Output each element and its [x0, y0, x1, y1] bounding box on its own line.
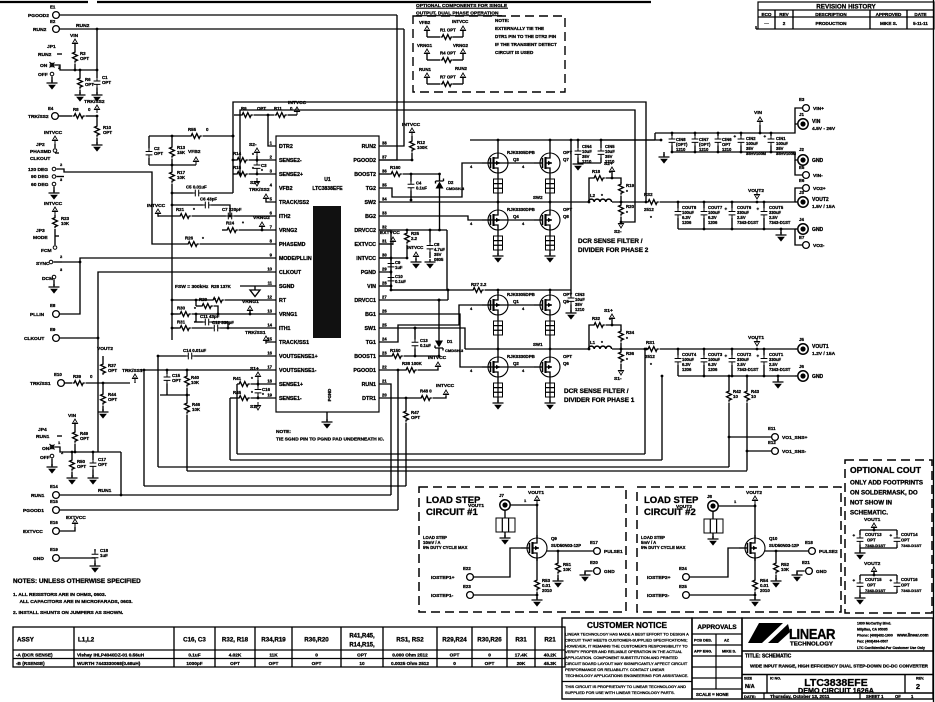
Linear Technology logo [748, 623, 836, 648]
svg-text:WIDE INPUT RANGE, HIGH EFFICIE: WIDE INPUT RANGE, HIGH EFFICIENCY DUAL S… [750, 664, 929, 669]
wire sense node [160, 394, 190, 397]
svg-text:R34,R19: R34,R19 [261, 637, 286, 644]
svg-text:10K: 10K [191, 380, 200, 385]
svg-text:JP2: JP2 [36, 142, 45, 148]
svg-text:MIKE S.: MIKE S. [722, 650, 736, 654]
svg-text:OF: OF [895, 694, 901, 699]
net VOUT1 opt [864, 517, 881, 531]
svg-text:R21: R21 [176, 207, 185, 212]
svg-text:J6: J6 [799, 364, 804, 369]
net VOUT2 in LS2 [746, 490, 762, 538]
capacitor C14 [157, 348, 276, 359]
svg-text:1uF: 1uF [100, 553, 108, 558]
svg-text:7343-D1ST: 7343-D1ST [901, 588, 922, 593]
svg-text:R8: R8 [73, 107, 79, 112]
svg-text:EXTVCC: EXTVCC [23, 529, 43, 535]
resistor R1 [419, 19, 469, 39]
svg-text:Thursday, October 13, 2011: Thursday, October 13, 2011 [770, 694, 830, 699]
wire Q8 drain [549, 202, 551, 207]
svg-text:VOUT1: VOUT1 [812, 344, 829, 350]
svg-text:GND: GND [816, 569, 827, 575]
svg-text:VO2-: VO2- [813, 243, 825, 249]
svg-text:E7: E7 [799, 235, 805, 240]
resistor R10 [92, 116, 113, 152]
svg-text:VO1_SNS-: VO1_SNS- [782, 449, 807, 455]
svg-text:IOSTEP2-: IOSTEP2- [647, 593, 670, 599]
svg-text:PHASEMD: PHASEMD [279, 242, 306, 248]
svg-text:36: 36 [382, 169, 387, 174]
capacitor CIN5 [578, 140, 615, 164]
net VIN label [754, 110, 763, 134]
svg-text:VIN-: VIN- [813, 173, 823, 179]
svg-text:1uF: 1uF [395, 265, 403, 270]
svg-text:Milpitas, CA 95035: Milpitas, CA 95035 [857, 628, 888, 632]
svg-text:+: + [853, 578, 856, 583]
diode D2 [436, 173, 465, 232]
svg-text:*: * [242, 221, 244, 227]
svg-text:2512: 2512 [644, 207, 654, 212]
svg-text:22: 22 [382, 365, 387, 370]
resistor R160 [379, 165, 440, 176]
svg-text:N/A: N/A [745, 684, 755, 690]
svg-text:www.linear.com: www.linear.com [896, 633, 929, 638]
svg-text:R160: R160 [390, 165, 401, 170]
net S1+ at DCR [604, 308, 615, 326]
svg-text:HOWEVER, IT REMAINS THE CUSTOM: HOWEVER, IT REMAINS THE CUSTOMER'S RESPO… [565, 643, 688, 648]
svg-text:TG1: TG1 [366, 340, 376, 346]
resistor R37 [101, 356, 118, 375]
svg-text:PRODUCTION: PRODUCTION [816, 21, 848, 26]
svg-text:GND: GND [812, 227, 824, 233]
svg-text:RUN2: RUN2 [33, 27, 47, 33]
svg-text:E1: E1 [50, 5, 56, 10]
svg-text:APP ENG.: APP ENG. [694, 650, 712, 654]
svg-text:VIN: VIN [70, 33, 79, 39]
net VRNG2 [253, 215, 270, 231]
svg-text:R29,R24: R29,R24 [442, 637, 467, 644]
svg-text:VRNG1: VRNG1 [242, 299, 259, 305]
svg-text:RUN1: RUN1 [98, 488, 112, 494]
svg-text:10K: 10K [192, 407, 201, 412]
gnd COUT bank1 [678, 375, 795, 389]
text DCR phase2 [578, 238, 649, 254]
svg-text:SW1: SW1 [365, 326, 377, 332]
gate box Q4 [493, 233, 504, 263]
svg-text:2512: 2512 [645, 354, 655, 359]
svg-text:+: + [757, 207, 760, 212]
svg-text:—: — [764, 21, 769, 26]
load step 2 box [637, 487, 841, 612]
svg-text:OPT: OPT [102, 80, 111, 85]
svg-text:IOSTEP1+: IOSTEP1+ [431, 575, 455, 581]
svg-text:DIVIDER FOR PHASE 1: DIVIDER FOR PHASE 1 [564, 397, 635, 404]
svg-text:E5: E5 [799, 165, 805, 170]
capacitor COUT1 [757, 348, 791, 378]
net S1- at C16 [250, 402, 261, 410]
VIN rail bank [601, 132, 790, 140]
net FSW RT [171, 284, 276, 302]
svg-text:7343-D1ST: 7343-D1ST [901, 543, 922, 548]
svg-text:Q9: Q9 [551, 536, 557, 541]
svg-text:18: 18 [267, 379, 272, 384]
svg-text:R1 OPT: R1 OPT [440, 28, 456, 33]
resistor R25 [379, 230, 420, 259]
resistor R34 [619, 330, 635, 351]
svg-text:0: 0 [453, 661, 456, 666]
wire BG2 [379, 216, 482, 220]
svg-text:PGND: PGND [327, 389, 332, 402]
svg-text:R41,R45,: R41,R45, [349, 634, 375, 640]
svg-text:0.1uF: 0.1uF [395, 279, 406, 284]
svg-text:GND: GND [812, 158, 824, 164]
capacitor COUT5 [757, 201, 791, 231]
svg-text:EXTVCC: EXTVCC [355, 242, 377, 248]
jack J8 [676, 494, 755, 511]
optional components dashed box [413, 3, 565, 92]
svg-text:*: * [202, 236, 204, 242]
svg-text:24: 24 [382, 337, 387, 342]
svg-text:11: 11 [268, 281, 273, 286]
svg-text:R32: R32 [592, 316, 601, 321]
svg-text:7343-D1ST: 7343-D1ST [865, 588, 886, 593]
svg-text:7343-D1ST: 7343-D1ST [865, 543, 886, 548]
svg-text:DIVIDER FOR PHASE 2: DIVIDER FOR PHASE 2 [578, 247, 649, 254]
svg-text:SHEET 1: SHEET 1 [866, 694, 884, 699]
svg-text:+: + [890, 578, 893, 583]
svg-text:R31: R31 [177, 320, 186, 325]
testpoint E9 [24, 327, 98, 342]
svg-text:NOTE:: NOTE: [495, 18, 510, 23]
wire VOUTSENSE1+ drop [157, 356, 159, 467]
capacitor COUT13 [853, 529, 898, 548]
svg-text:VIN+: VIN+ [813, 106, 824, 112]
svg-text:2: 2 [783, 21, 786, 26]
VIN rail phase1 [497, 289, 571, 293]
testpoint E18 [765, 540, 838, 555]
svg-text:PERFORMANCE OR RELIABILITY. CO: PERFORMANCE OR RELIABILITY. CONTACT LINE… [565, 667, 664, 672]
jack J1 [795, 112, 836, 132]
svg-text:ON: ON [42, 446, 50, 452]
wire SW1 pin [379, 327, 465, 349]
svg-text:AZ: AZ [724, 639, 730, 643]
capacitor COUT15 [853, 574, 898, 593]
svg-text:CLKOUT: CLKOUT [30, 156, 50, 162]
svg-text:E10: E10 [54, 372, 62, 377]
svg-text:VIN: VIN [68, 413, 77, 419]
resistor R38 [379, 355, 447, 372]
jack J3 [795, 190, 836, 210]
testpoint E8 [30, 262, 80, 318]
svg-text:R7 OPT: R7 OPT [440, 75, 456, 80]
resistor R13 [170, 136, 186, 166]
approvals box [692, 618, 742, 699]
svg-text:C5 0.01uF: C5 0.01uF [186, 185, 207, 190]
svg-text:S1+: S1+ [604, 308, 613, 314]
jumper JP2 [28, 130, 70, 200]
svg-text:EXTERNALLY TIE THE: EXTERNALLY TIE THE [495, 26, 544, 31]
testpoint E1 [28, 5, 397, 161]
svg-text:Fax: (408)434-0507: Fax: (408)434-0507 [857, 640, 888, 644]
resistor R12 [402, 122, 428, 161]
jumper JP1 [38, 44, 97, 90]
capacitor C12 [212, 320, 277, 331]
gnd COUT bank2 [678, 228, 795, 242]
resistor R43 [745, 375, 760, 471]
svg-text:INTVCC: INTVCC [428, 355, 447, 361]
svg-text:VERIFY PROPER AND RELIABLE OPE: VERIFY PROPER AND RELIABLE OPERATION IN … [565, 649, 683, 654]
wire RUN2 to JP1 [96, 28, 99, 72]
wire VIN feed [570, 139, 573, 290]
svg-text:PULSE2: PULSE2 [819, 549, 838, 555]
svg-text:E18: E18 [805, 540, 813, 545]
svg-text:-A (DCR SENSE): -A (DCR SENSE) [16, 652, 53, 657]
resistor R45 [233, 390, 276, 400]
svg-text:S1-: S1- [250, 404, 258, 410]
capacitor C18 [90, 548, 109, 573]
U1 PGND ground [322, 412, 333, 429]
svg-text:21: 21 [382, 379, 387, 384]
resistor R17 [170, 165, 186, 340]
svg-text:33: 33 [382, 211, 387, 216]
capacitor COUT16 [855, 575, 923, 605]
svg-text:Q5: Q5 [563, 299, 569, 304]
wire CLKOUT [97, 272, 276, 339]
svg-text:OPT: OPT [77, 464, 86, 469]
svg-text:J3: J3 [799, 190, 804, 195]
resistor R54 [750, 558, 771, 607]
svg-text:E25: E25 [679, 584, 687, 589]
svg-text:1206: 1206 [682, 367, 692, 372]
resistor R8 [73, 107, 99, 118]
svg-text:E12: E12 [768, 440, 776, 445]
wire sense bus 5 [143, 369, 406, 486]
svg-text:OPT: OPT [867, 583, 876, 588]
testpoint E10 [30, 372, 72, 387]
svg-text:S2-: S2- [614, 229, 622, 235]
svg-text:*: * [601, 193, 603, 199]
wire SW2 rail [379, 195, 589, 203]
ground SGND [240, 286, 276, 297]
svg-text:TECHNOLOGY APPLICATIONS ENGINE: TECHNOLOGY APPLICATIONS ENGINEERING FOR … [565, 673, 688, 678]
svg-text:1.2V / 15A: 1.2V / 15A [812, 351, 836, 357]
wire SYNC to MODE/PLLIN [62, 258, 276, 263]
svg-text:*: * [626, 210, 628, 216]
resistor R55 [149, 127, 234, 138]
svg-text:4.5V - 26V: 4.5V - 26V [812, 126, 836, 132]
gate box Q7 [546, 176, 555, 202]
svg-text:13: 13 [267, 309, 272, 314]
svg-text:Q7: Q7 [563, 157, 569, 162]
svg-text:SW2: SW2 [365, 200, 377, 206]
transistor Q2 [482, 354, 535, 380]
svg-text:OPT: OPT [230, 661, 240, 666]
svg-text:OPT: OPT [154, 151, 163, 156]
svg-text:VIN: VIN [367, 284, 376, 290]
capacitor C4 [408, 174, 428, 201]
wire sense bus 3 [158, 466, 729, 468]
svg-text:30: 30 [382, 253, 387, 258]
svg-text:R27 2.2: R27 2.2 [471, 282, 487, 287]
svg-text:CIRCUIT BOARD LAYOUT MAY SIGNI: CIRCUIT BOARD LAYOUT MAY SIGNIFICANTLY A… [565, 661, 688, 666]
net VOUT1 at rail [748, 335, 764, 350]
svg-text:40.2K: 40.2K [544, 652, 557, 657]
svg-text:C7 220pF: C7 220pF [222, 207, 242, 212]
svg-text:R20: R20 [626, 204, 635, 209]
svg-text:ITH1: ITH1 [279, 326, 291, 332]
svg-text:Q2: Q2 [513, 361, 519, 366]
gnd CIN bank [659, 151, 791, 164]
svg-text:10K: 10K [781, 567, 790, 572]
svg-text:VOUT2: VOUT2 [97, 346, 113, 352]
svg-text:DTR1 PIN TO THE DTR2 PIN: DTR1 PIN TO THE DTR2 PIN [495, 34, 557, 39]
svg-text:PLLIN: PLLIN [30, 312, 45, 318]
svg-text:OPT: OPT [108, 368, 117, 373]
svg-text:RUN2: RUN2 [362, 144, 376, 150]
svg-text:*: * [601, 340, 603, 346]
svg-text:RUN2: RUN2 [455, 66, 468, 71]
resistor R41 [233, 376, 276, 386]
svg-text:WURTH 7443330068(0.68uH): WURTH 7443330068(0.68uH) [77, 661, 141, 666]
svg-text:7343-D1ST: 7343-D1ST [737, 367, 759, 372]
svg-text:REV: REV [779, 12, 789, 17]
svg-text:DTR1: DTR1 [362, 396, 376, 402]
resistor R14 [233, 151, 276, 162]
svg-text:MIKE S.: MIKE S. [880, 21, 897, 26]
svg-text:DRVCC1: DRVCC1 [354, 298, 376, 304]
testpoint E25 [647, 584, 755, 599]
svg-text:2.2: 2.2 [411, 236, 418, 241]
capacitor COUT4 [675, 349, 697, 376]
net VOUT2 opt [864, 561, 881, 575]
capacitor CIN3 [566, 290, 586, 320]
wire PHASEMD R26 [170, 236, 276, 247]
resistor R30 [171, 306, 276, 317]
svg-text:R4 OPT: R4 OPT [440, 51, 456, 56]
svg-text:OPT: OPT [80, 56, 89, 61]
net TRK/SS1 at pin15 [245, 330, 276, 344]
svg-text:E19: E19 [50, 547, 58, 552]
resistor R31 [171, 320, 212, 331]
svg-text:VOUT2: VOUT2 [864, 561, 881, 567]
svg-text:TITLE: SCHEMATIC: TITLE: SCHEMATIC [745, 654, 792, 660]
svg-text:R150: R150 [390, 348, 401, 353]
svg-text:10: 10 [733, 394, 738, 399]
svg-text:*: * [251, 390, 253, 396]
net S2- at DCR [614, 220, 624, 235]
svg-text:10: 10 [359, 661, 365, 666]
net VFB2 [149, 149, 201, 165]
svg-text:EXTVCC: EXTVCC [66, 515, 86, 521]
gate box Q5 [546, 318, 555, 349]
svg-text:ECO: ECO [762, 12, 772, 17]
testpoint E15 [23, 499, 398, 514]
net INTVCC at R11 [288, 100, 307, 115]
svg-text:R36,R20: R36,R20 [304, 637, 329, 644]
capacitor C6 [171, 197, 232, 218]
svg-text:C14 0.01uF: C14 0.01uF [183, 348, 207, 353]
svg-text:OPT: OPT [269, 661, 279, 666]
svg-text:OFF: OFF [40, 455, 50, 461]
svg-text:*: * [252, 166, 254, 172]
wire TG1 [379, 305, 482, 342]
svg-text:TG2: TG2 [366, 186, 376, 192]
svg-text:RJK0305DPB: RJK0305DPB [507, 292, 535, 297]
wire gate link Q3 Q7 [470, 163, 534, 169]
svg-text:ON: ON [40, 63, 48, 69]
svg-text:ALL CAPACITORS ARE IN MICROFAR: ALL CAPACITORS ARE IN MICROFARADS, 0603. [20, 599, 134, 605]
svg-text:C6 43pF: C6 43pF [200, 197, 217, 202]
testpoint E21 [792, 560, 828, 582]
svg-text:R30,R26: R30,R26 [477, 637, 502, 644]
svg-text:PHASMD: PHASMD [30, 149, 52, 155]
jumper JP4 [36, 427, 121, 474]
svg-text:E15: E15 [50, 499, 58, 504]
svg-text:E22: E22 [463, 566, 471, 571]
capacitor CIN6 [715, 133, 733, 152]
svg-text:RUN2: RUN2 [38, 52, 52, 58]
resistor R3 [70, 33, 89, 71]
wire TG2 [379, 163, 482, 197]
svg-text:RUN2: RUN2 [76, 23, 90, 29]
testpoint E17 [547, 540, 623, 555]
svg-text:Vishay IHLP4040DZ-01 0.56uH: Vishay IHLP4040DZ-01 0.56uH [77, 652, 145, 657]
gate box Q1 [494, 318, 503, 349]
svg-text:TRK/SS2: TRK/SS2 [28, 114, 49, 120]
svg-text:REVISION HISTORY: REVISION HISTORY [816, 4, 876, 11]
resistor R50 [67, 451, 87, 485]
svg-text:SCHEMATIC.: SCHEMATIC. [850, 510, 888, 517]
net INTVCC at C9 [407, 245, 424, 269]
net S2+ at DCR [604, 161, 615, 179]
svg-text:OPT: OPT [563, 292, 572, 297]
svg-text:SUPPLIED FOR USE WITH LINEAR T: SUPPLIED FOR USE WITH LINEAR TECHNOLOGY … [565, 690, 675, 695]
svg-text:OPT: OPT [108, 397, 117, 402]
svg-text:RUN1: RUN1 [362, 382, 376, 388]
svg-text:J8: J8 [707, 494, 712, 499]
svg-text:VOUTSENSE1-: VOUTSENSE1- [279, 368, 317, 374]
svg-text:31: 31 [382, 239, 387, 244]
svg-text:28: 28 [382, 281, 387, 286]
capacitor C17 [88, 451, 108, 485]
svg-text:APPROVALS: APPROVALS [697, 624, 737, 631]
jack J6 [795, 364, 824, 381]
svg-text:CMDSH-3: CMDSH-3 [445, 348, 464, 353]
svg-text:*: * [650, 215, 652, 221]
svg-text:*: * [626, 189, 628, 195]
wire DRVCC2 box [379, 229, 447, 290]
transistor Q9 [521, 535, 581, 561]
transistor Q5 [534, 292, 572, 318]
resistor network J8 [704, 512, 723, 546]
svg-text:GND: GND [812, 374, 824, 380]
net INTVCC at R21 [147, 203, 166, 217]
svg-text:+: + [734, 134, 737, 139]
svg-text:2: 2 [916, 682, 920, 691]
testpoint E6 [795, 178, 826, 202]
svg-text:RJK0305DPB: RJK0305DPB [507, 150, 535, 155]
svg-text:NOTE:: NOTE: [276, 429, 291, 435]
svg-text:1. ALL RESISTORS ARE IN OHMS,: 1. ALL RESISTORS ARE IN OHMS, 0603. [13, 592, 107, 598]
svg-text:CLKOUT: CLKOUT [24, 336, 44, 342]
svg-text:OPT: OPT [563, 354, 572, 359]
capacitor C11 [195, 313, 230, 330]
svg-text:0.1uF: 0.1uF [416, 186, 427, 191]
resistor R53 [532, 558, 553, 607]
resistor R32 [588, 316, 621, 350]
testpoint E20 [580, 560, 616, 582]
svg-text:S2+: S2+ [250, 180, 259, 186]
U1 pin labels [267, 141, 387, 403]
